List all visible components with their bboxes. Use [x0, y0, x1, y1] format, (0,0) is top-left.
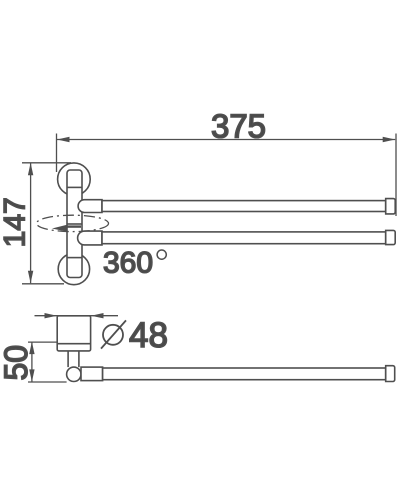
top view: wall flange bottom circle [58, 253, 89, 284]
top view: post joint line lower [67, 257, 82, 259]
dimension 48 right arrow [91, 313, 104, 318]
top view: lower arm hub [78, 231, 102, 245]
dimension 50 line [28, 342, 67, 382]
top view: lower arm end cap [386, 230, 396, 244]
dimension 375 left extension line [56, 134, 58, 173]
rotation ellipse dash-dot [37, 215, 109, 231]
side view: wall plate flange line [57, 343, 90, 345]
diameter symbol [101, 320, 126, 348]
dimension 48 left arrow [45, 313, 58, 318]
dimension 50 top extension line [28, 341, 57, 343]
top view: post pivot joint line middle [67, 223, 82, 225]
dimension 147 line [22, 163, 71, 284]
side view: arm sleeve [81, 367, 103, 381]
svg-text:375: 375 [211, 108, 266, 145]
svg-text:50: 50 [0, 345, 34, 381]
dimension 375 left arrow [57, 137, 70, 142]
dimension 147 top arrow [28, 163, 33, 176]
top view: lower arm bar [102, 232, 386, 244]
dimension 375 right arrow [383, 137, 396, 142]
rotation arrowhead [52, 225, 68, 232]
top view: upper arm hub [78, 200, 102, 213]
top view: upper arm bar [102, 201, 386, 212]
dimension 48 line [35, 313, 119, 318]
svg-text:360: 360 [103, 247, 153, 280]
side view: pivot ball [67, 367, 81, 381]
top view: upper arm end cap [386, 199, 396, 214]
dimension 147 bottom arrow [28, 271, 33, 284]
side view: arm bar [103, 368, 386, 380]
degree symbol for 360 [157, 250, 166, 259]
top view: post joint line upper [67, 186, 82, 188]
dimension 147 bottom extension line [22, 283, 64, 285]
top view: wall flange top circle [58, 163, 91, 196]
dimension 375 right extension line [395, 134, 397, 217]
dimension 50 bottom arrow [29, 369, 34, 382]
svg-text:147: 147 [0, 197, 31, 247]
top view: vertical post [67, 170, 82, 278]
dimension 375 line [57, 134, 397, 217]
dimension 50 top arrow [29, 342, 34, 355]
side view: wall plate [57, 316, 90, 351]
side view: arm end cap [386, 366, 395, 382]
side view: stem [67, 351, 69, 367]
dimension 147 top extension line [22, 162, 71, 164]
svg-text:48: 48 [129, 316, 168, 355]
dimension 50 bottom extension line [28, 381, 67, 383]
